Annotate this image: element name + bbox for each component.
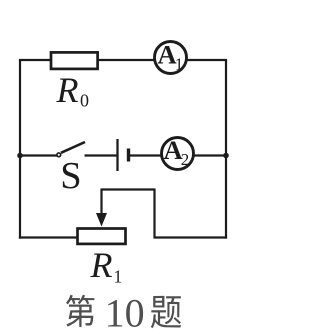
svg-text:R: R [90, 245, 113, 285]
caption: 第 [66, 295, 94, 327]
svg-text:A: A [158, 40, 177, 70]
wire: top horizontal [19, 59, 227, 61]
wire: ammeter A2 to right junction [193, 154, 226, 156]
svg-text:0: 0 [80, 91, 89, 111]
svg-text:1: 1 [175, 55, 184, 74]
wire: battery to ammeter A2 [129, 154, 164, 156]
wire: left vertical [19, 60, 21, 239]
node: right junction [223, 153, 229, 159]
switch S lever [61, 142, 85, 153]
wire: bottom left horizontal [19, 236, 77, 238]
battery short plate [127, 149, 130, 162]
rheostat slider arrowhead [96, 213, 107, 227]
rheostat slider arrow stem and wire to right junction [102, 190, 228, 238]
wire: right vertical [225, 60, 227, 239]
ammeter A1 [155, 42, 187, 74]
svg-text:10: 10 [105, 291, 145, 334]
switch S pivot [57, 153, 61, 157]
svg-text:R: R [56, 70, 79, 110]
battery long plate [116, 139, 118, 171]
rheostat R1 [78, 229, 126, 244]
node: left junction [17, 153, 23, 159]
svg-text:S: S [60, 155, 81, 197]
resistor R0 [51, 52, 98, 69]
caption: 题 [151, 296, 181, 328]
svg-text:1: 1 [114, 267, 123, 287]
ammeter A2 [162, 138, 194, 170]
wire: switch to battery [85, 154, 118, 156]
svg-text:A: A [164, 135, 183, 165]
svg-text:2: 2 [181, 150, 190, 169]
wire: left junction to switch [20, 154, 57, 156]
